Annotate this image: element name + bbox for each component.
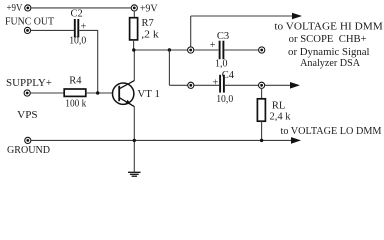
- svg-text:FUNC OUT: FUNC OUT: [5, 16, 55, 27]
- svg-text:C4: C4: [222, 70, 235, 81]
- terminal +9V at R7 top: [131, 5, 137, 11]
- resistor RL: [257, 99, 265, 121]
- capacitor C3: [220, 41, 224, 60]
- svg-text:+9V: +9V: [7, 3, 23, 14]
- terminal C3 left: [188, 47, 194, 53]
- wire collector rail: [134, 49, 188, 51]
- svg-text:Analyzer DSA: Analyzer DSA: [300, 58, 360, 69]
- ground symbol: [128, 172, 141, 176]
- svg-text:VPS: VPS: [17, 110, 38, 121]
- resistor R7: [130, 18, 138, 40]
- wire R7 top stub: [133, 11, 135, 18]
- wire R7 bottom to collector rail: [133, 39, 135, 50]
- capacitor C4: [220, 75, 224, 93]
- svg-text:1,0: 1,0: [215, 58, 228, 69]
- wire emitter down: [133, 106, 135, 171]
- resistor R4: [64, 89, 86, 96]
- svg-text:+: +: [210, 40, 216, 51]
- junction R7 collector: [132, 48, 135, 51]
- svg-text:SUPPLY+: SUPPLY+: [6, 78, 52, 89]
- svg-text:R4: R4: [69, 76, 82, 87]
- terminal FUNC OUT: [24, 27, 30, 33]
- transistor VT 1: [113, 81, 135, 107]
- wire collector up: [133, 50, 135, 81]
- svg-text:or SCOPE CHB+: or SCOPE CHB+: [289, 34, 367, 45]
- wire C4 right segment: [225, 84, 258, 86]
- svg-text:C3: C3: [217, 31, 229, 42]
- wire C4 output with arrow: [265, 82, 300, 89]
- svg-text:,2 k: ,2 k: [141, 30, 159, 41]
- wire to VOLTAGE HI with arrow: [191, 13, 302, 20]
- wire C4 row left: [169, 84, 187, 86]
- junction C4 drop: [168, 48, 171, 51]
- svg-text:10,0: 10,0: [216, 94, 233, 105]
- svg-text:to VOLTAGE HI DMM: to VOLTAGE HI DMM: [274, 22, 383, 33]
- wire top +9V rail: [31, 7, 131, 9]
- svg-text:or Dynamic Signal: or Dynamic Signal: [288, 47, 370, 58]
- svg-text:RL: RL: [272, 100, 285, 111]
- wire drop from collector rail to C4 row: [168, 50, 170, 85]
- wire C3 right segment: [225, 49, 259, 51]
- wire FUNC OUT to C2: [31, 29, 74, 31]
- svg-text:VT 1: VT 1: [137, 89, 160, 100]
- svg-text:+9V: +9V: [140, 4, 158, 15]
- wire C3 node up to HI arrow: [190, 16, 192, 47]
- junction base node: [96, 91, 99, 94]
- terminal SUPPLY+: [24, 90, 30, 96]
- junction RL ground: [260, 139, 263, 142]
- terminal C3 right: [259, 47, 265, 53]
- wire C3 left segment: [194, 49, 218, 51]
- svg-text:GROUND: GROUND: [7, 145, 50, 156]
- svg-text:C2: C2: [70, 8, 82, 19]
- terminal C4 right: [259, 82, 265, 88]
- wire C4 left segment: [194, 84, 219, 86]
- junction emitter ground: [133, 139, 136, 142]
- svg-text:to VOLTAGE LO DMM: to VOLTAGE LO DMM: [281, 126, 383, 137]
- svg-text:2,4 k: 2,4 k: [270, 112, 292, 123]
- terminal GROUND: [25, 137, 31, 143]
- svg-text:R7: R7: [141, 18, 153, 29]
- wire RL bottom to ground rail: [261, 121, 263, 140]
- wire R4 to base: [86, 92, 113, 94]
- wire ground rail with arrow: [31, 137, 301, 144]
- terminal C4 left: [188, 82, 194, 88]
- svg-text:+: +: [213, 78, 219, 89]
- wire C2 to corner and down to base node: [79, 30, 97, 93]
- wire RL top stub: [261, 89, 263, 99]
- wire SUPPLY+ to R4: [31, 92, 65, 94]
- capacitor C2: [75, 19, 79, 38]
- svg-text:100 k: 100 k: [65, 98, 87, 109]
- svg-text:10,0: 10,0: [69, 36, 86, 47]
- terminal +9V left: [25, 5, 31, 11]
